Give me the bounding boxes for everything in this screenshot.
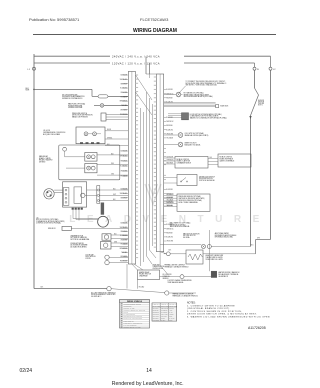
svg-text:MOBILE CONTROL: MOBILE CONTROL [220, 157, 233, 159]
relay contact K1a [85, 153, 97, 162]
svg-text:BLU/BLEU: BLU/BLEU [167, 194, 174, 196]
pressure switch S1 [101, 113, 106, 121]
svg-text:GRIS: GRIS [169, 316, 172, 318]
washer motor M3 [102, 234, 111, 240]
bus drop wires to board [145, 56, 147, 74]
svg-text:BLK: BLK [113, 199, 116, 201]
svg-text:WHT/BLNC: WHT/BLNC [120, 156, 127, 158]
svg-text:WHT/BLNC: WHT/BLNC [120, 79, 127, 81]
N line vertical [254, 70, 256, 88]
svg-text:BLK/NOIR: BLK/NOIR [121, 189, 128, 191]
inline thermostat B [165, 291, 169, 295]
svg-text:RED/RGE: RED/RGE [121, 197, 127, 199]
svg-text:DETECTEUR DE PRESSION: DETECTEUR DE PRESSION [72, 115, 92, 117]
svg-text:BLK: BLK [111, 153, 114, 155]
svg-text:PORTE: PORTE [86, 258, 91, 260]
J2 pins group1 [123, 74, 129, 76]
lid lock pins [80, 142, 83, 144]
harness wires down [72, 210, 74, 219]
wire L1 to noise filter [34, 88, 92, 90]
svg-text:BRN/BRUN: BRN/BRUN [120, 248, 127, 250]
svg-text:ORG/ORN: ORG/ORN [120, 92, 127, 94]
terminal N [254, 63, 256, 67]
terminal L1 [33, 67, 36, 70]
heater element HE1 [186, 250, 203, 264]
heater relay box K2 [138, 270, 160, 280]
svg-text:VERROU: VERROU [163, 278, 169, 280]
svg-text:WHT/BLNC: WHT/BLNC [166, 228, 173, 230]
svg-text:BLK/NOIR: BLK/NOIR [167, 157, 174, 159]
svg-text:RED/RGE: RED/RGE [166, 97, 172, 99]
svg-text:WHT/BLNC: WHT/BLNC [161, 312, 167, 314]
J2 pins group4 [123, 188, 129, 190]
legend table WIRING SYMBOLS [120, 300, 150, 328]
svg-text:ORG/ORN: ORG/ORN [166, 241, 173, 243]
svg-text:BLK/NOIR: BLK/NOIR [121, 75, 128, 77]
svg-text:GRY/GRIS: GRY/GRIS [120, 256, 127, 258]
relay contact K1b [85, 164, 97, 173]
svg-text:DE RELE: DE RELE [39, 161, 45, 163]
heater inlet thermostat [166, 252, 170, 256]
sweeping wires bottom [132, 264, 138, 270]
drain pump control box [164, 157, 175, 159]
svg-text:NEGRO: NEGRO [169, 308, 173, 310]
node P10 junction on L1 [33, 89, 34, 90]
svg-text:NOTE 1: NOTE 1 [258, 105, 263, 107]
header rule [33, 34, 276, 36]
svg-text:WHT/BLNC: WHT/BLNC [120, 193, 127, 195]
svg-text:GRN: GRN [114, 241, 117, 243]
aux control box [208, 158, 218, 160]
inline thermostat A [107, 287, 111, 291]
svg-text:RED/RGE: RED/RGE [121, 83, 127, 85]
svg-text:WHT/BL: WHT/BL [107, 137, 112, 139]
svg-text:ORG/ORN: ORG/ORN [153, 318, 159, 320]
svg-text:COLOR CODE: COLOR CODE [153, 305, 161, 307]
svg-text:GRY/GRIS: GRY/GRIS [153, 316, 159, 318]
svg-text:3. WASHER LID LOAD SHOWN UNEN: 3. WASHER LID LOAD SHOWN UNENERGIZED WIT… [187, 315, 270, 318]
svg-text:PNK/ROSE: PNK/ROSE [120, 260, 127, 262]
plate actuator M4 [101, 242, 112, 250]
svg-text:COLOR CODE: COLOR CODE [169, 305, 177, 307]
svg-text:120VAC / 120 V.c.a. / 120 VCA: 120VAC / 120 V.c.a. / 120 VCA [112, 61, 160, 65]
svg-text:BLU: BLU [114, 233, 117, 235]
svg-text:PORTE DE SECHEUSE: PORTE DE SECHEUSE [199, 180, 215, 182]
lid lock wires to J2 [105, 130, 128, 132]
relay output thermostat [180, 275, 184, 279]
svg-text:RED/RGE: RED/RGE [166, 232, 172, 234]
relay internal wires [64, 151, 66, 157]
svg-text:WHT/BLNC: WHT/BLNC [167, 160, 174, 162]
240V bus label [110, 54, 184, 59]
svg-text:BLU/BLEU: BLU/BLEU [166, 129, 173, 131]
J3 pins group1 [164, 89, 166, 91]
watermark logo [145, 184, 161, 204]
svg-text:240VAC / 240 V.c.a. / 240 VCA: 240VAC / 240 V.c.a. / 240 VCA [112, 55, 160, 59]
svg-text:WHT/BLNC: WHT/BLNC [120, 227, 127, 229]
svg-text:BLK: BLK [169, 250, 172, 252]
svg-text:LIMITE ELEVEE: LIMITE ELEVEE [153, 268, 163, 270]
120V bus label [110, 61, 184, 66]
svg-text:BLK/NOIR: BLK/NOIR [153, 308, 159, 310]
svg-text:BLK/NOIR: BLK/NOIR [121, 223, 128, 225]
heater ground block [211, 271, 217, 277]
main relay board K1 [59, 145, 120, 180]
svg-text:GRY/GRIS: GRY/GRIS [120, 109, 127, 111]
svg-text:RED: RED [111, 163, 114, 165]
drive motor M1 [44, 189, 54, 199]
connector J5 [97, 186, 100, 204]
svg-text:CONNECTOR: CONNECTOR [123, 305, 131, 307]
svg-text:BLK/NOIR: BLK/NOIR [166, 89, 173, 91]
wire fuse to connector [104, 104, 129, 106]
svg-text:BLK: BLK [41, 287, 44, 289]
240V bus [34, 55, 271, 57]
svg-text:NOTES:: NOTES: [187, 303, 196, 305]
svg-text:COMM. DE: COMM. DE [163, 276, 170, 278]
svg-text:RED/RGE: RED/RGE [121, 231, 127, 233]
svg-text:VERDE: VERDE [169, 314, 173, 316]
motor control box U2 [63, 182, 87, 207]
main control board connector J2 (left strip) [128, 72, 135, 265]
svg-text:ORG/ORN: ORG/ORN [120, 239, 127, 241]
L2 line vertical [270, 70, 272, 239]
svg-text:BRN/BRUN: BRN/BRUN [167, 202, 174, 204]
svg-text:02/24: 02/24 [20, 368, 33, 374]
J2 pins group5 [123, 222, 129, 224]
noise filter F1 [98, 95, 108, 98]
svg-text:WIRE DISCONNECT / BORNE: WIRE DISCONNECT / BORNE [123, 303, 141, 305]
svg-text:ORG/ORN: ORG/ORN [120, 171, 127, 173]
svg-text:(INDIVIDUAL BRANCH CIRCUIT): (INDIVIDUAL BRANCH CIRCUIT) [187, 307, 230, 310]
svg-text:BLU/BLEU: BLU/BLEU [153, 310, 159, 312]
svg-text:DRYER DOOR SWITCH: DRYER DOOR SWITCH [199, 176, 215, 178]
svg-text:INTERRUPTEUR DE: INTERRUPTEUR DE [199, 178, 213, 180]
N jog arrow [249, 116, 251, 119]
terminal L2 [270, 56, 272, 67]
svg-text:BLK/NOIR: BLK/NOIR [166, 189, 173, 191]
svg-text:PNK/ROSE: PNK/ROSE [120, 114, 127, 116]
J2 pins group3 [123, 150, 129, 152]
svg-text:LID LOCK: LID LOCK [43, 130, 51, 132]
svg-text:BOUCHON DE: BOUCHON DE [86, 256, 96, 258]
svg-text:Publication No: 5995738571: Publication No: 5995738571 [29, 17, 80, 22]
J2 pin numbers [136, 75, 139, 76]
svg-text:PRESSURE SWITCH: PRESSURE SWITCH [72, 113, 87, 115]
door switch S3 [164, 177, 177, 179]
J3 pin numbers [154, 77, 156, 78]
svg-text:DE CIRE / MOTOR: DE CIRE / MOTOR [183, 235, 195, 237]
svg-text:2. CONTROLS SHOWN IN OFF PO: 2. CONTROLS SHOWN IN OFF POSITION, [187, 311, 242, 313]
svg-text:LID LOCK SW: LID LOCK SW [163, 274, 173, 276]
relay wires to J2 [97, 154, 128, 156]
svg-text:Rendered by LeadVenture, Inc.: Rendered by LeadVenture, Inc. [112, 381, 184, 387]
svg-text:BLU/BLEU: BLU/BLEU [120, 88, 127, 90]
diagonal wire top [136, 75, 153, 100]
svg-text:BLU/BLEU: BLU/BLEU [120, 235, 127, 237]
door cap switch S2b [105, 260, 109, 264]
side box wires [164, 102, 216, 104]
svg-text:ORG/ORN: ORG/ORN [167, 197, 174, 199]
svg-text:SIDE BOX: SIDE BOX [48, 228, 56, 230]
svg-text:HIGH LIMIT: HIGH LIMIT [153, 264, 161, 266]
svg-text:COLOR CODE: COLOR CODE [161, 305, 169, 307]
svg-text:BRN/BRUN: BRN/BRUN [120, 101, 127, 103]
J3 pins group2 [164, 116, 166, 118]
svg-text:BLU: BLU [113, 188, 116, 190]
svg-text:ORG: ORG [111, 174, 114, 176]
L1 bus vertical [33, 54, 35, 141]
note leader line [179, 86, 186, 94]
hot water valve L1v [164, 94, 177, 96]
svg-text:BLK: BLK [251, 245, 254, 247]
svg-text:DK BLU: DK BLU [161, 320, 165, 322]
wires motor control to connector J5 [85, 194, 97, 196]
svg-text:SPLICE: SPLICE [123, 312, 128, 314]
svg-text:A11726205: A11726205 [248, 326, 266, 330]
wax motor wires [160, 244, 201, 246]
svg-text:PNK/ROSE: PNK/ROSE [153, 320, 159, 322]
svg-text:BLK/NOIR: BLK/NOIR [121, 151, 128, 153]
svg-text:RED/RGE: RED/RGE [121, 161, 127, 163]
svg-text:WHT: WHT [257, 238, 260, 240]
warm water valve L3v [164, 144, 179, 146]
strip drop to return [126, 264, 128, 289]
cold water valve L2v [164, 134, 179, 136]
N drop to ground [209, 230, 211, 271]
lid lock assembly LS1 [76, 127, 105, 144]
harness pads [72, 208, 74, 210]
pressure sensor box [164, 195, 177, 197]
svg-text:RED/RGE: RED/RGE [167, 163, 173, 165]
svg-text:FLCE752CAW3: FLCE752CAW3 [140, 17, 169, 22]
120V bus [34, 62, 255, 64]
J3 pins group3 [164, 174, 166, 176]
svg-text:VIO/VIOLT: VIO/VIOLT [161, 316, 167, 318]
door switch connector [168, 113, 182, 115]
box output terminal [81, 193, 85, 197]
L1 bottom return wire [33, 141, 35, 289]
svg-text:RED/ROUGE: RED/ROUGE [161, 308, 168, 310]
inter-strip vertical wires [140, 108, 142, 266]
run capacitor C1 [101, 203, 104, 215]
svg-text:14: 14 [146, 368, 152, 374]
thermal fuse TF1 [100, 104, 104, 108]
wire motor to motor control [54, 189, 62, 191]
svg-text:BLU/BLEU: BLU/BLEU [120, 166, 127, 168]
svg-text:DRYER DOOR SWITCH OPEN, & MOTO: DRYER DOOR SWITCH OPEN, & MOTOR(S) AT RE… [187, 313, 257, 316]
drain pump M2 [98, 216, 109, 227]
main control board connector J3 (right strip) [157, 74, 164, 252]
svg-text:RED/RGE: RED/RGE [166, 125, 172, 127]
svg-text:GRN/VERT: GRN/VERT [153, 314, 159, 316]
wire color code table [152, 303, 177, 321]
svg-text:SIDE BOX: SIDE BOX [220, 106, 229, 108]
svg-text:BLU/BLEU: BLU/BLEU [166, 237, 173, 239]
svg-text:WHT: WHT [113, 194, 116, 196]
svg-text:KIT OF NOISE FILTER: KIT OF NOISE FILTER [62, 94, 78, 96]
svg-text:MOBILE CONTROL: MOBILE CONTROL [177, 159, 190, 161]
wire filter to connector [108, 95, 128, 97]
dryer heater lead [164, 253, 167, 255]
svg-text:BRN/BRUN: BRN/BRUN [153, 312, 159, 314]
svg-text:BLK: BLK [210, 157, 213, 159]
svg-text:1. CONNECT DRYER TO 60 AMPERE: 1. CONNECT DRYER TO 60 AMPERE [187, 304, 235, 307]
svg-text:WIRING DIAGRAM: WIRING DIAGRAM [133, 28, 177, 34]
svg-text:WHT/BLNC: WHT/BLNC [166, 121, 173, 123]
svg-text:LT BLU: LT BLU [161, 318, 165, 320]
svg-text:BLK/N: BLK/N [107, 129, 111, 131]
door cap switch S2 [105, 255, 109, 259]
